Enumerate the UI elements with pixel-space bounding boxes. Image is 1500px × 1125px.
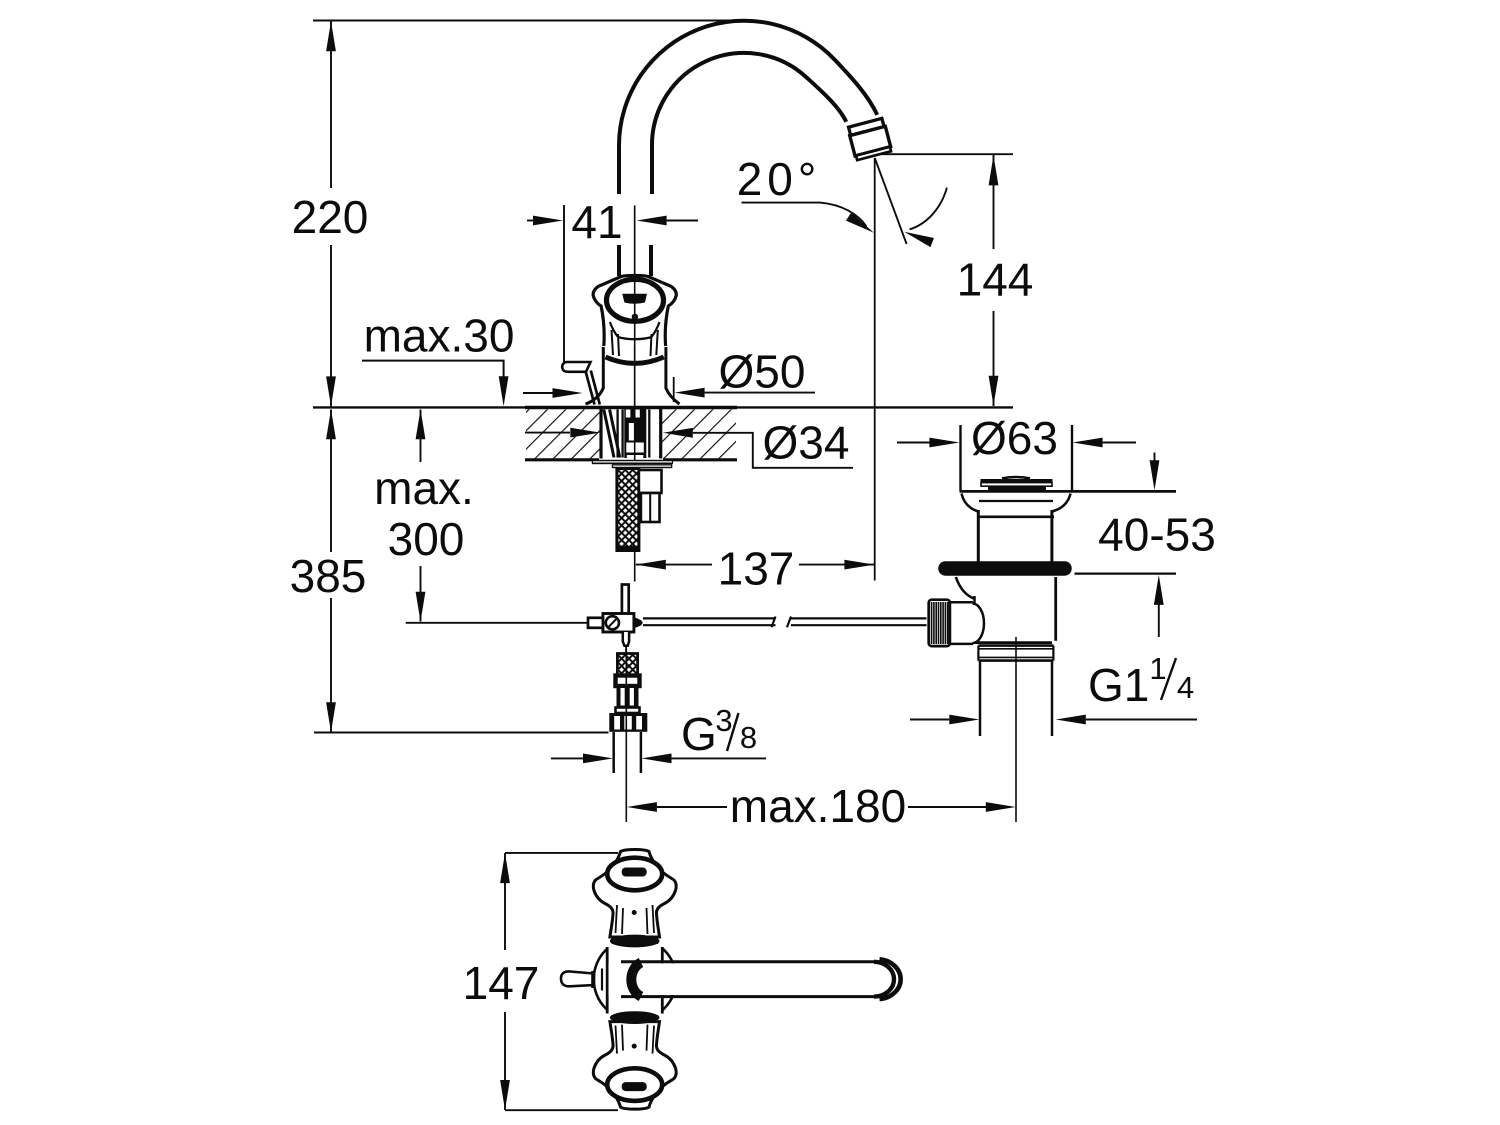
dim 137 line [636,560,666,570]
coupling nut [609,713,647,732]
dim O63 arrows [897,442,930,444]
faucet centerline over handle [634,206,636,460]
dim 40-53 upper arrow [1154,453,1156,463]
braided supply hose below deck [617,469,639,551]
svg-text:max.: max. [374,462,474,514]
connector left stub [588,618,603,628]
svg-text:220: 220 [292,191,369,243]
deck bottom line [525,458,599,461]
pull rod blade [622,585,629,615]
handle index dash [622,294,647,304]
drain upper cylinder [977,510,980,562]
dim 147 vertical line [500,853,510,883]
dim max.180 line [627,802,657,812]
spout connection ring (black crescent) [631,963,641,997]
svg-text:Ø50: Ø50 [719,346,806,398]
faucet body column [602,347,605,389]
basin bottom line [960,490,1177,493]
hose centerline [625,648,627,822]
drain lower body [956,577,974,599]
dim 220 vertical line [330,21,332,188]
knurled adjuster knob [929,600,950,646]
dim max.30 leader underline and arrow [362,361,504,378]
braided hose lower [617,654,637,676]
fitting box 2 (splined) [617,686,639,708]
dim 147 extension lines [505,852,618,854]
backnut washer plates [592,460,673,464]
dim max.300 bottom extension line [406,622,587,624]
dim 41 left extension line [563,205,565,362]
fitting box 3 [616,708,640,714]
svg-text:1: 1 [1149,651,1166,686]
threaded stud block [624,409,646,458]
svg-text:8: 8 [740,720,757,755]
connector screw [606,616,619,629]
drain plug cap [1002,477,1030,478]
dim 20deg arc arrow [910,188,947,230]
drain flange sides / O63 extension lines [959,425,961,491]
rod break symbol [787,617,791,628]
rod connector block [603,614,634,633]
rubber seal O-ring [938,561,1071,575]
svg-text:144: 144 [957,254,1034,306]
upper knob (top view) [593,849,676,937]
connector right nub [634,617,643,629]
drain tail pipe [979,661,982,736]
dim 144 vertical line [993,155,995,249]
dim 20deg leader [742,203,867,227]
dim O50 arrows [523,392,553,394]
rod ball joint [950,601,973,604]
pull rod through deck (slanted) [604,410,614,458]
dim 41 arrows [527,220,534,222]
svg-text:41: 41 [571,196,622,248]
escutcheon circle (top view) [594,938,677,1021]
dim 40-53 lower line and arrow [1075,572,1177,574]
dim O50 right extension line [673,377,675,402]
svg-text:385: 385 [290,550,367,602]
svg-text:max.180: max.180 [730,780,906,832]
svg-text:max.30: max.30 [364,310,515,362]
handle knob (front view) [593,275,676,346]
faucet centerline [634,206,636,582]
fitting box 1 [616,676,640,687]
svg-text:40-53: 40-53 [1098,509,1216,561]
spout tube (top view) [609,963,882,995]
svg-text:137: 137 [718,543,795,595]
shank vertical lines [616,410,618,458]
svg-text:G: G [681,708,717,760]
handle skirt bottom arc [606,357,664,363]
dim 144 top extension line [876,153,1013,155]
deck hatching right patch [662,410,736,459]
drain centerline [1015,637,1017,822]
dim 20deg slant line [875,158,907,244]
horizontal pop-up rod [643,617,776,619]
svg-text:20°: 20° [737,153,822,205]
drain pull lever [562,362,590,372]
lower knob (top view) [593,1022,676,1110]
drain shoulder curves [962,494,1071,512]
dim O34 arrows and leader [525,432,570,434]
svg-text:Ø34: Ø34 [763,417,850,469]
spout tube outer edge [619,21,877,194]
dim max.300 vertical line [420,410,422,463]
svg-text:147: 147 [463,957,540,1009]
supply pipe stub right [639,470,662,493]
dim 385 bottom extension line [314,732,609,734]
spout axis extension line [874,158,876,581]
spout tube inner edge [652,53,846,194]
aerator at spout tip [848,118,892,160]
svg-text:G1: G1 [1088,659,1149,711]
hose tail pipe [612,732,615,773]
svg-text:4: 4 [1177,670,1194,705]
dim G3/8 arrows [551,757,583,759]
drain collar ring [978,644,1053,647]
svg-text:300: 300 [388,513,465,565]
connector bottom stub [623,632,629,646]
deck hole edges [599,408,602,459]
deck hatching left patch [526,410,600,459]
svg-text:3: 3 [715,703,732,738]
dim 385 vertical line [330,410,332,553]
dim G1 1/4 arrows [910,719,949,721]
deck surface line [313,406,1013,408]
riser pipe edge segments [617,245,621,276]
handle ridge lines [612,330,658,356]
base flare [586,388,680,404]
dim 220 top extension line [313,20,744,22]
handle top face ellipse [607,279,664,321]
svg-text:Ø63: Ø63 [971,412,1058,464]
handle center dot [632,314,638,320]
lever (top view) [561,971,594,986]
body column (top view) [607,944,662,1015]
